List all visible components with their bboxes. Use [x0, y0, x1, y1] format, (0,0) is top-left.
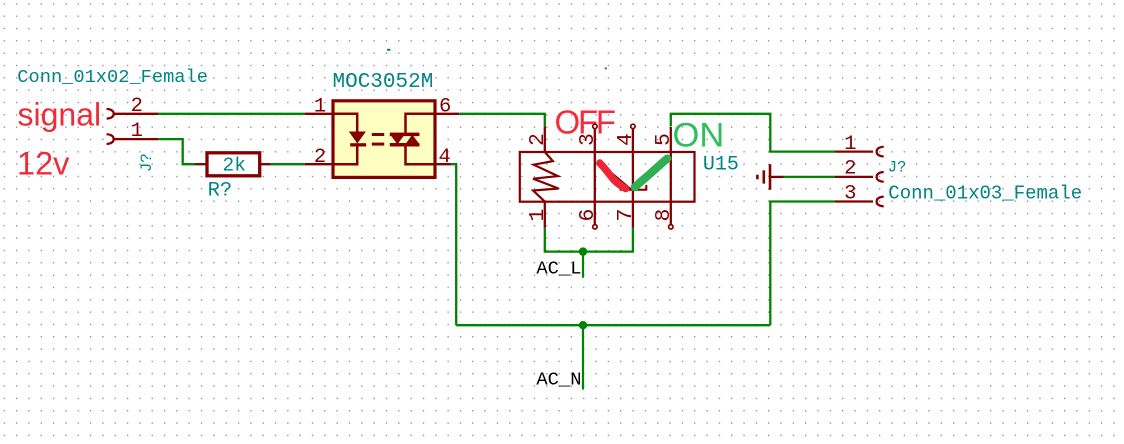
connector J? (Conn_01x03_Female) pin 1: [835, 147, 884, 157]
relay coil: [533, 152, 558, 202]
svg-text:ON: ON: [673, 116, 725, 154]
wire signal row: [158, 113, 305, 115]
label Conn_01x02_Female: [17, 66, 208, 88]
label MOC3052M: [333, 71, 434, 94]
svg-text:3: 3: [576, 133, 600, 146]
label Conn_01x03_Female: [888, 182, 1082, 204]
svg-text:8: 8: [652, 209, 676, 222]
text 12v: [17, 145, 70, 181]
relay pin 3 with circle: [593, 124, 597, 201]
value 2k: [223, 155, 246, 177]
opto triac (detector): [390, 114, 435, 164]
opto pin 2: [305, 163, 333, 165]
tiny dot mark: [605, 67, 607, 69]
svg-text:U15: U15: [703, 154, 739, 177]
svg-text:MOC3052M: MOC3052M: [333, 71, 434, 94]
reference R?: [208, 179, 233, 202]
svg-text:1: 1: [314, 96, 326, 119]
svg-text:Conn_01x03_Female: Conn_01x03_Female: [888, 182, 1082, 204]
connector J? (Conn_01x03_Female) pin 2: [835, 172, 884, 182]
wire 12v row to resistor: [158, 139, 195, 164]
reference U15: [703, 154, 739, 177]
svg-text:6: 6: [439, 96, 451, 119]
svg-text:1: 1: [131, 120, 143, 143]
connector J? (Conn_01x03_Female) pin 3: [835, 197, 884, 207]
connector J? (Conn_01x02_Female) pin 2: [107, 109, 158, 119]
svg-text:5: 5: [652, 133, 676, 146]
relay pin 4 with circle: [631, 124, 635, 201]
text signal: [18, 97, 102, 133]
svg-text:4: 4: [439, 146, 451, 169]
svg-text:1: 1: [844, 133, 856, 156]
relay pin 7: [632, 202, 634, 228]
svg-text:3: 3: [844, 182, 856, 205]
svg-text:2: 2: [526, 133, 550, 146]
opto coupling bars: [372, 133, 384, 146]
relay pin 1: [544, 202, 546, 228]
svg-text:6: 6: [576, 209, 600, 222]
svg-text:J?: J?: [888, 159, 907, 177]
pin number 1: [314, 96, 326, 119]
connector J? (Conn_01x02_Female) pin 1: [107, 134, 158, 144]
pin number 4 (rotated): [614, 133, 638, 146]
pin number 2 (rotated): [526, 133, 550, 146]
pin number 8 (rotated): [652, 209, 676, 222]
junction AC_N: [579, 321, 587, 329]
opto pin 4: [435, 163, 451, 165]
svg-text:2: 2: [131, 95, 143, 118]
OFF scribble (red): [600, 163, 626, 189]
pin number 1: [131, 120, 143, 143]
pin number 4: [439, 146, 451, 169]
pin number 7 (rotated): [614, 209, 638, 222]
relay pin 8 with circle: [669, 202, 673, 229]
relay U15 body: [520, 152, 695, 202]
svg-text:12v: 12v: [17, 145, 70, 181]
wire opto pin4 down to AC_N row: [451, 164, 456, 325]
relay pin 6 with circle: [593, 202, 597, 229]
opto LED (emitter diode): [333, 114, 366, 164]
wire gnd to connector pin2: [783, 176, 835, 178]
relay switch lever: [602, 165, 647, 190]
relay pin 5: [670, 127, 672, 202]
wire AC_L label stub: [582, 252, 584, 278]
pin number 2: [314, 146, 326, 169]
svg-text:2: 2: [314, 146, 326, 169]
svg-text:2: 2: [844, 158, 856, 181]
opto pin 6: [435, 113, 459, 115]
pin number 6: [439, 96, 451, 119]
reference J? (right): [888, 159, 907, 177]
svg-text:Conn_01x02_Female: Conn_01x02_Female: [17, 66, 208, 88]
wire opto pin6 to relay pin2: [459, 114, 545, 127]
junction AC_L: [579, 247, 587, 255]
wire resistor to opto pin2: [271, 163, 305, 165]
svg-text:R?: R?: [208, 179, 233, 202]
label AC_N: [536, 369, 581, 391]
ON scribble (green): [635, 159, 668, 188]
text OFF: [555, 103, 615, 140]
resistor R? (2k): [195, 153, 271, 176]
pin number 3: [844, 182, 856, 205]
pin number 2: [844, 158, 856, 181]
text ON: [673, 116, 725, 154]
svg-text:AC_N: AC_N: [536, 369, 581, 391]
pin number 2: [131, 95, 143, 118]
wire relay pin5 to right connector pin1: [671, 114, 835, 152]
svg-text:7: 7: [614, 209, 638, 222]
wire AC_N label stub: [582, 325, 584, 389]
opto-triac MOC3052M body: [333, 101, 435, 178]
pin number 5 (rotated): [652, 133, 676, 146]
wire AC_N row: [456, 324, 770, 326]
pin number 1: [844, 133, 856, 156]
svg-text:2k: 2k: [223, 155, 246, 177]
tiny dash mark: [387, 49, 390, 51]
opto pin 1: [305, 113, 333, 115]
svg-text:AC_L: AC_L: [536, 258, 581, 280]
svg-text:J?: J?: [138, 153, 156, 172]
pin number 6 (rotated): [576, 209, 600, 222]
relay pin 2: [544, 126, 546, 152]
pin number 1 (rotated): [526, 209, 550, 222]
pin number 3 (rotated): [576, 133, 600, 146]
label AC_L: [536, 258, 581, 280]
svg-text:signal: signal: [18, 97, 102, 133]
reference J? (rotated): [138, 153, 156, 172]
wire right vertical to connector pin3: [770, 202, 835, 326]
svg-text:4: 4: [614, 133, 638, 146]
ground: [757, 164, 783, 190]
wire relay pin1 to AC_L junction: [545, 228, 633, 252]
svg-text:1: 1: [526, 209, 550, 222]
